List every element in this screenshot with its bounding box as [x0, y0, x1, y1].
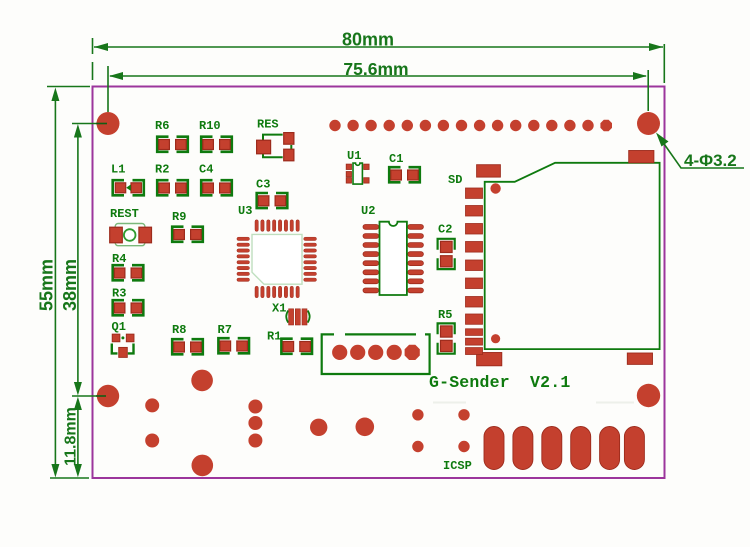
connector ICSP — [412, 409, 472, 473]
svg-text:X1: X1 — [272, 302, 286, 316]
resistor R2 — [155, 163, 188, 196]
svg-text:C1: C1 — [389, 152, 403, 166]
svg-text:L1: L1 — [111, 163, 125, 177]
capacitor C1 — [389, 152, 420, 182]
dimension 80mm — [93, 38, 665, 83]
mounting hole bottom-left — [97, 385, 119, 407]
svg-text:ICSP: ICSP — [443, 459, 472, 473]
svg-text:G-Sender V2.1: G-Sender V2.1 — [429, 373, 570, 392]
svg-text:R6: R6 — [155, 119, 169, 133]
svg-text:C2: C2 — [438, 223, 452, 237]
svg-text:U1: U1 — [347, 149, 361, 163]
svg-text:RES: RES — [257, 118, 279, 132]
svg-text:4-Φ3.2: 4-Φ3.2 — [684, 151, 737, 170]
resistor R4 — [112, 252, 143, 280]
svg-text:C3: C3 — [256, 178, 270, 192]
resistor R9 — [172, 210, 203, 242]
resistor R6 — [155, 119, 188, 152]
svg-text:R3: R3 — [112, 287, 126, 301]
svg-text:11.8mm: 11.8mm — [62, 407, 79, 466]
resistor R1 — [267, 330, 312, 354]
annotation 4-phi3.2 leader — [659, 136, 745, 168]
resistor R8 — [172, 323, 203, 354]
capacitor C3 — [256, 178, 287, 209]
svg-text:Q1: Q1 — [112, 320, 126, 334]
svg-text:R2: R2 — [155, 163, 169, 177]
transistor Q1 — [112, 320, 135, 357]
capacitor C4 — [199, 163, 232, 196]
connector J2 serial header — [322, 334, 430, 374]
button REST — [110, 207, 152, 246]
ic U2 — [361, 204, 423, 295]
dimension 38mm — [72, 124, 107, 397]
resistor R3 — [112, 287, 143, 316]
mounting hole bottom-right — [637, 384, 660, 407]
svg-text:R1: R1 — [267, 330, 281, 344]
ic U1 — [346, 149, 369, 184]
svg-text:R4: R4 — [112, 252, 126, 266]
board outline — [93, 87, 665, 479]
svg-text:R8: R8 — [172, 323, 186, 337]
dimension 75.6mm — [108, 66, 648, 112]
connector J1 top pin header pads — [329, 120, 612, 132]
svg-text:38mm: 38mm — [60, 259, 80, 311]
svg-text:R10: R10 — [199, 119, 221, 133]
jumper RES — [257, 118, 294, 161]
mounting hole top-right — [637, 112, 660, 135]
resistor R10 — [199, 119, 232, 152]
dimension 55mm — [47, 87, 90, 479]
mounting hole top-left — [97, 112, 120, 135]
capacitor C2 — [438, 223, 455, 270]
vias bottom area — [145, 370, 374, 477]
dimension 11.8mm — [77, 402, 79, 471]
svg-text:R7: R7 — [218, 323, 232, 337]
svg-text:C4: C4 — [199, 163, 213, 177]
resistor R7 — [218, 323, 250, 353]
sd card socket SD — [448, 151, 660, 366]
svg-text:75.6mm: 75.6mm — [343, 59, 408, 79]
svg-text:SD: SD — [448, 173, 462, 187]
ic U3 — [237, 204, 317, 298]
tick across top-left hole — [96, 123, 107, 125]
inductor L1 — [111, 163, 144, 196]
svg-text:U2: U2 — [361, 204, 375, 218]
faint marks — [433, 402, 634, 404]
svg-text:R5: R5 — [438, 308, 452, 322]
tick across bottom-left hole — [96, 395, 106, 397]
svg-text:80mm: 80mm — [342, 30, 394, 50]
crystal X1 — [272, 302, 310, 326]
svg-text:U3: U3 — [238, 204, 252, 218]
resistor R5 — [438, 308, 455, 354]
svg-text:R9: R9 — [172, 210, 186, 224]
power pads bottom right — [484, 427, 644, 470]
svg-text:REST: REST — [110, 207, 139, 221]
svg-text:55mm: 55mm — [37, 259, 57, 311]
